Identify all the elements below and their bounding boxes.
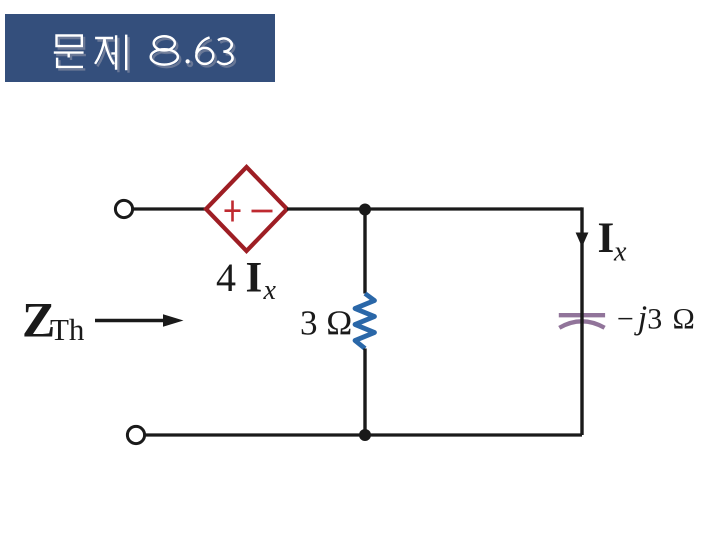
title bar xyxy=(5,14,275,82)
minus sign inside source xyxy=(252,210,273,213)
svg-text:I: I xyxy=(246,255,263,302)
title number 8.63 xyxy=(151,36,233,64)
terminal b (bottom-left open circle) xyxy=(127,426,144,443)
wire top-left horizontal xyxy=(133,207,207,210)
title number 8.63 shadow xyxy=(153,39,235,67)
node bottom junction dot xyxy=(359,429,371,441)
svg-text:x: x xyxy=(613,237,627,268)
title glyph 문 xyxy=(54,36,84,67)
wire resistor branch upper xyxy=(363,209,366,294)
svg-text:3 Ω: 3 Ω xyxy=(300,304,352,343)
svg-text:I: I xyxy=(598,215,615,262)
svg-text:4: 4 xyxy=(216,255,236,300)
terminal a (top-left open circle) xyxy=(115,200,132,217)
bottom wire xyxy=(146,433,582,436)
wire right vertical xyxy=(580,207,583,435)
current arrowhead Ix xyxy=(576,233,589,248)
node top junction dot xyxy=(359,204,371,216)
title shadow 문제 xyxy=(56,37,128,73)
resistor 3ohm zigzag xyxy=(355,294,375,349)
ZTh arrow line xyxy=(95,319,166,322)
wire resistor branch lower xyxy=(363,349,366,436)
title glyph 제 xyxy=(95,35,126,71)
wire top middle-right xyxy=(287,207,582,210)
capacitor -j3 top plate xyxy=(559,313,605,317)
svg-text:Th: Th xyxy=(50,312,85,347)
svg-text:−j3Ω: −j3Ω xyxy=(617,300,695,337)
plus sign inside source xyxy=(225,201,241,222)
svg-text:x: x xyxy=(263,275,277,306)
ZTh arrowhead xyxy=(163,314,184,327)
dependent source 4Ix (diamond) xyxy=(206,167,287,251)
capacitor -j3 bottom plate (arc) xyxy=(559,321,604,328)
